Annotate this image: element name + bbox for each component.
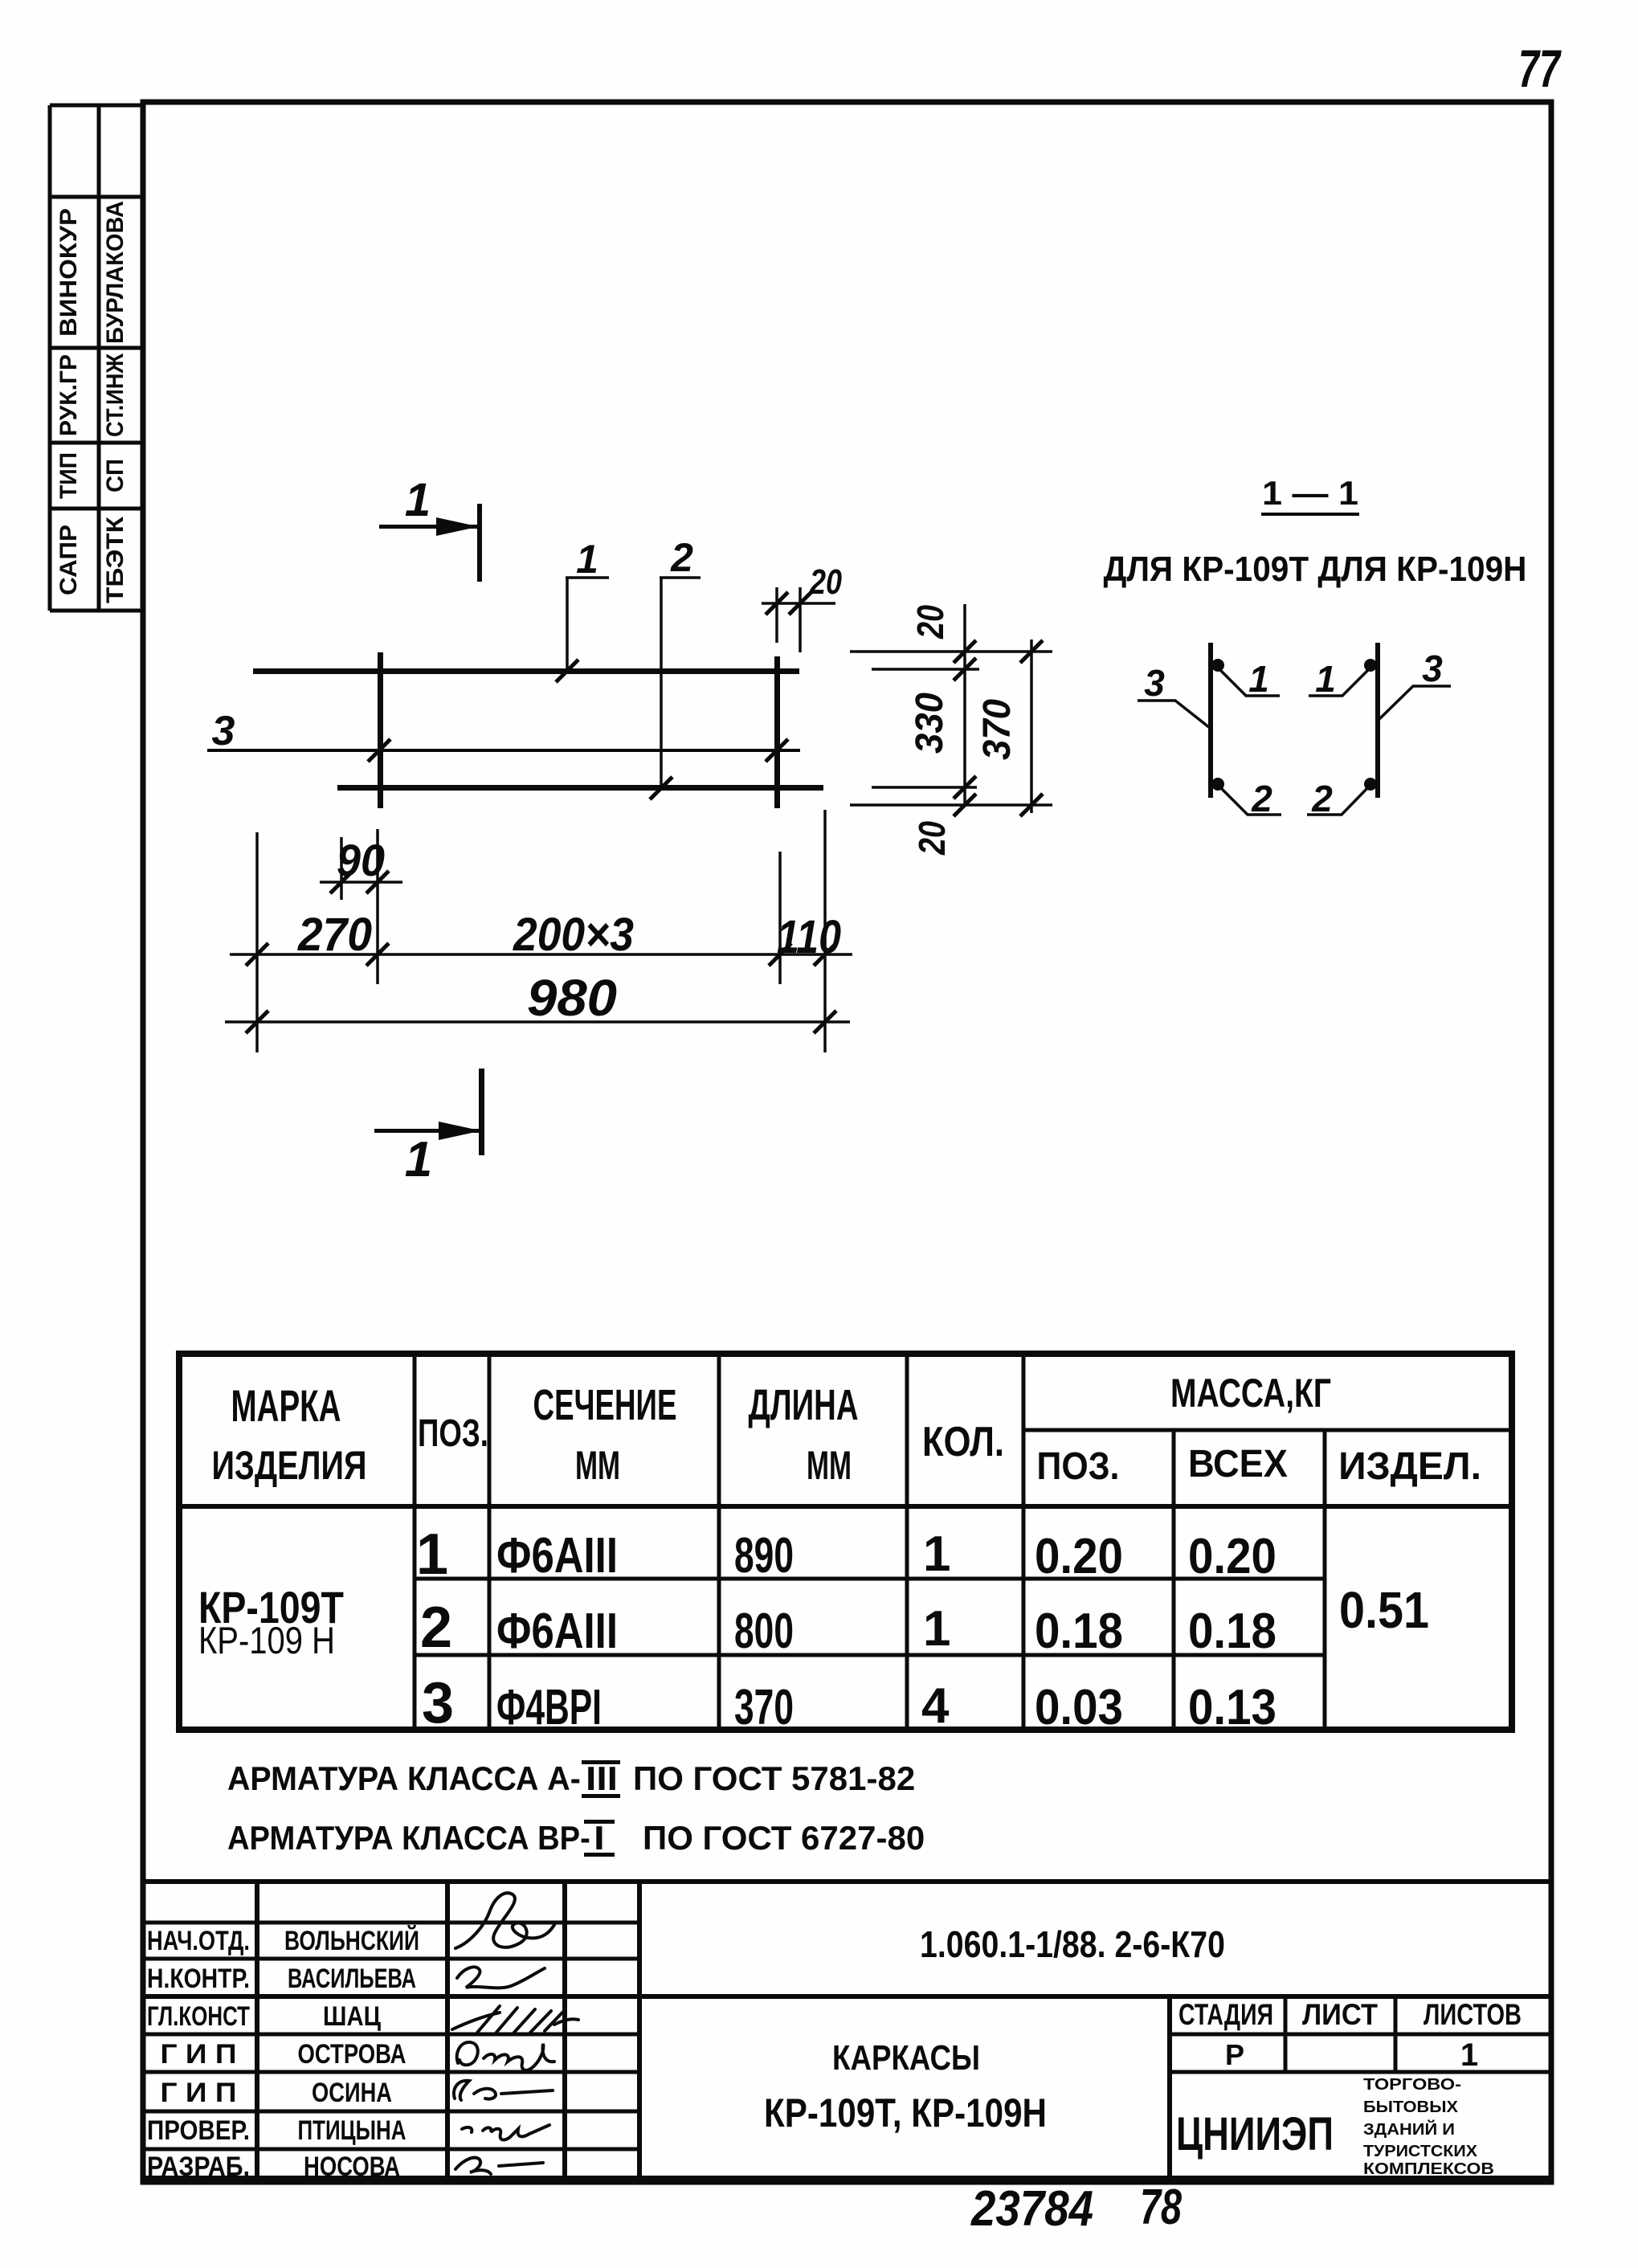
svg-text:20: 20 <box>911 821 952 856</box>
svg-text:1.060.1-1/88. 2-6-К70: 1.060.1-1/88. 2-6-К70 <box>920 1924 1225 1966</box>
svg-text:СЕЧЕНИЕ: СЕЧЕНИЕ <box>533 1380 677 1429</box>
svg-text:20: 20 <box>809 562 842 602</box>
svg-text:ВАСИЛЬЕВА: ВАСИЛЬЕВА <box>288 1964 416 1994</box>
svg-text:ТБЭТК: ТБЭТК <box>101 516 129 603</box>
svg-text:1: 1 <box>416 1522 448 1587</box>
svg-text:3: 3 <box>212 708 235 754</box>
svg-text:ЛИСТОВ: ЛИСТОВ <box>1424 1999 1522 2032</box>
svg-text:ММ: ММ <box>575 1443 620 1488</box>
svg-text:0.20: 0.20 <box>1188 1528 1276 1584</box>
svg-text:2: 2 <box>1311 778 1333 819</box>
svg-text:КОЛ.: КОЛ. <box>922 1419 1004 1465</box>
svg-text:СТ.ИНЖ: СТ.ИНЖ <box>102 353 129 437</box>
svg-text:Н.КОНТР.: Н.КОНТР. <box>147 1964 250 1994</box>
svg-text:ПРОВЕР.: ПРОВЕР. <box>147 2115 250 2145</box>
svg-text:КАРКАСЫ: КАРКАСЫ <box>832 2037 980 2078</box>
svg-text:ДЛИНА: ДЛИНА <box>749 1381 859 1429</box>
svg-text:270: 270 <box>297 909 372 961</box>
svg-text:4: 4 <box>921 1678 950 1734</box>
svg-text:ШАЦ: ШАЦ <box>323 2000 381 2032</box>
svg-text:800: 800 <box>734 1604 794 1659</box>
svg-text:0.13: 0.13 <box>1188 1679 1276 1735</box>
svg-text:78: 78 <box>1140 2179 1182 2235</box>
svg-text:370: 370 <box>975 699 1018 760</box>
svg-text:ПОЗ.: ПОЗ. <box>418 1412 488 1455</box>
svg-text:Ф6АIII: Ф6АIII <box>496 1528 618 1584</box>
svg-text:1: 1 <box>1315 658 1336 700</box>
svg-text:1 — 1: 1 — 1 <box>1262 475 1358 512</box>
svg-text:РАЗРАБ.: РАЗРАБ. <box>147 2151 250 2181</box>
svg-text:РУК.ГР: РУК.ГР <box>55 354 82 436</box>
svg-text:1: 1 <box>576 537 598 582</box>
svg-text:ОСТРОВА: ОСТРОВА <box>298 2038 406 2069</box>
svg-text:Ф6АIII: Ф6АIII <box>496 1604 618 1659</box>
svg-text:ЗДАНИЙ И: ЗДАНИЙ И <box>1363 2120 1455 2139</box>
svg-text:23784: 23784 <box>970 2181 1093 2237</box>
svg-text:200×3: 200×3 <box>513 909 634 960</box>
svg-text:3: 3 <box>1422 648 1443 689</box>
svg-text:ВСЕХ: ВСЕХ <box>1188 1442 1288 1485</box>
svg-text:ПО ГОСТ 5781-82: ПО ГОСТ 5781-82 <box>633 1759 915 1797</box>
svg-text:ЛИСТ: ЛИСТ <box>1302 1998 1378 2031</box>
svg-text:370: 370 <box>734 1680 794 1735</box>
svg-text:МАРКА: МАРКА <box>231 1381 341 1432</box>
svg-text:1: 1 <box>405 1132 432 1187</box>
svg-text:МАССА,КГ: МАССА,КГ <box>1170 1370 1331 1416</box>
svg-text:0.18: 0.18 <box>1035 1603 1123 1659</box>
svg-text:ПТИЦЫНА: ПТИЦЫНА <box>298 2116 406 2146</box>
svg-text:0.18: 0.18 <box>1188 1603 1276 1659</box>
svg-text:0.51: 0.51 <box>1339 1581 1429 1639</box>
svg-text:1: 1 <box>405 474 431 526</box>
svg-text:ММ: ММ <box>807 1443 852 1488</box>
svg-text:ДЛЯ КР-109Т ДЛЯ КР-109Н: ДЛЯ КР-109Т ДЛЯ КР-109Н <box>1104 549 1527 588</box>
svg-text:2: 2 <box>670 535 693 580</box>
svg-text:ПО ГОСТ 6727-80: ПО ГОСТ 6727-80 <box>643 1819 925 1857</box>
svg-text:Р: Р <box>1225 2038 1244 2071</box>
svg-text:ТУРИСТСКИХ: ТУРИСТСКИХ <box>1363 2143 1477 2160</box>
svg-text:БЫТОВЫХ: БЫТОВЫХ <box>1363 2098 1458 2116</box>
svg-text:77: 77 <box>1518 39 1562 99</box>
svg-text:ПОЗ.: ПОЗ. <box>1037 1445 1120 1488</box>
svg-text:1: 1 <box>923 1601 950 1657</box>
svg-text:90: 90 <box>337 835 385 885</box>
svg-text:НОСОВА: НОСОВА <box>304 2151 400 2182</box>
svg-text:I: I <box>594 1819 605 1857</box>
svg-text:ТИП: ТИП <box>55 452 82 499</box>
svg-text:ГЛ.КОНСТ: ГЛ.КОНСТ <box>147 2002 250 2032</box>
svg-text:ОСИНА: ОСИНА <box>312 2077 392 2108</box>
svg-text:КОМПЛЕКСОВ: КОМПЛЕКСОВ <box>1363 2160 1494 2177</box>
svg-text:0.20: 0.20 <box>1035 1528 1123 1584</box>
svg-text:АРМАТУРА КЛАССА А-: АРМАТУРА КЛАССА А- <box>227 1759 581 1797</box>
svg-text:890: 890 <box>734 1528 794 1584</box>
svg-text:САПР: САПР <box>55 525 82 595</box>
svg-text:3: 3 <box>422 1671 454 1735</box>
svg-text:Г И П: Г И П <box>161 2038 237 2069</box>
svg-text:Ф4ВРI: Ф4ВРI <box>496 1680 602 1735</box>
svg-text:БУРЛАКОВА: БУРЛАКОВА <box>102 201 129 344</box>
svg-text:ТОРГОВО-: ТОРГОВО- <box>1363 2075 1461 2094</box>
svg-text:НАЧ.ОТД.: НАЧ.ОТД. <box>147 1925 250 1956</box>
svg-text:АРМАТУРА КЛАССА ВР-: АРМАТУРА КЛАССА ВР- <box>227 1819 590 1857</box>
svg-text:2: 2 <box>1251 778 1272 819</box>
svg-text:ВОЛЬНСКИЙ: ВОЛЬНСКИЙ <box>284 1924 419 1956</box>
svg-text:КР-109Т, КР-109Н: КР-109Т, КР-109Н <box>764 2090 1047 2135</box>
svg-text:330: 330 <box>908 693 950 754</box>
svg-text:КР-109 Н: КР-109 Н <box>198 1620 335 1662</box>
svg-text:ВИНОКУР: ВИНОКУР <box>55 208 81 337</box>
svg-text:2: 2 <box>420 1596 452 1660</box>
svg-text:ЦНИИЭП: ЦНИИЭП <box>1176 2109 1334 2161</box>
svg-text:3: 3 <box>1144 662 1165 704</box>
svg-text:110: 110 <box>777 912 841 963</box>
svg-text:1: 1 <box>923 1526 950 1582</box>
svg-text:III: III <box>586 1759 618 1798</box>
svg-text:20: 20 <box>909 605 950 640</box>
svg-text:Г И П: Г И П <box>161 2077 237 2107</box>
svg-text:ИЗДЕЛИЯ: ИЗДЕЛИЯ <box>212 1443 367 1488</box>
svg-text:ИЗДЕЛ.: ИЗДЕЛ. <box>1338 1445 1481 1488</box>
svg-text:1: 1 <box>1248 658 1269 700</box>
svg-text:0.03: 0.03 <box>1035 1679 1123 1735</box>
svg-text:1: 1 <box>1460 2037 1478 2073</box>
svg-text:980: 980 <box>527 969 617 1026</box>
svg-text:СТАДИЯ: СТАДИЯ <box>1178 1997 1273 2031</box>
svg-text:СП: СП <box>102 459 129 492</box>
